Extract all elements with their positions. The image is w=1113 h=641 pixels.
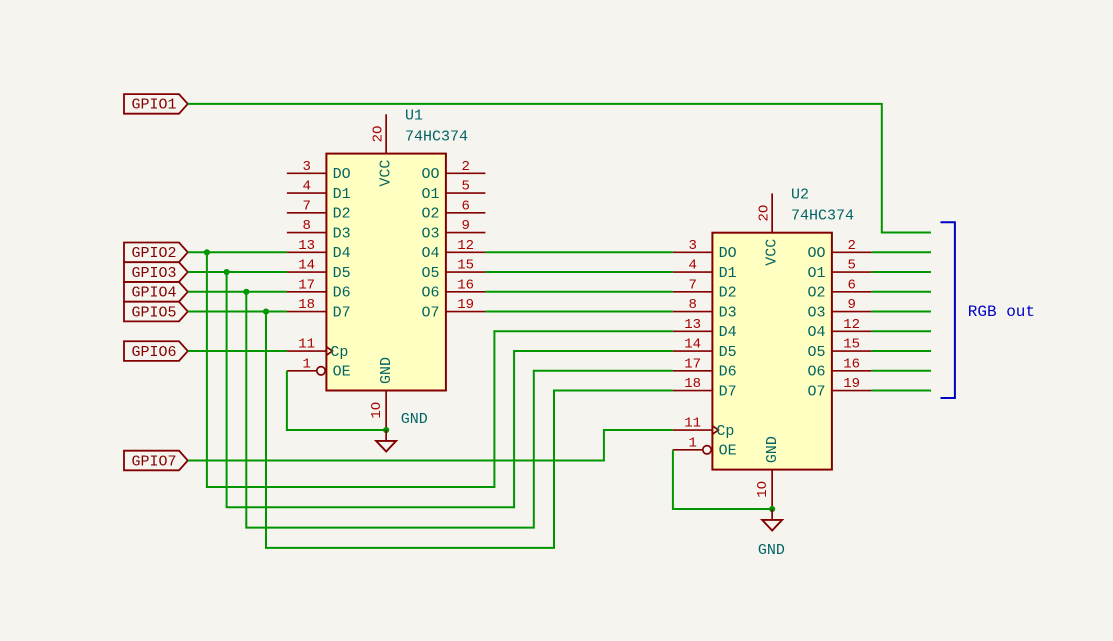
wire U1 O4 to U2 D0 [485, 251, 673, 253]
U1 pin 11 Cp clock [287, 337, 349, 361]
svg-text:GPIO1: GPIO1 [132, 97, 177, 114]
svg-text:2: 2 [461, 159, 469, 175]
svg-text:OE: OE [333, 364, 351, 381]
note bracket RGB out [941, 222, 955, 398]
svg-text:3: 3 [302, 159, 310, 175]
svg-text:O1: O1 [421, 186, 439, 203]
U2 pin 3 D0 [673, 238, 737, 262]
svg-text:7: 7 [302, 198, 310, 214]
wire GPIO5 to U1 D7 [188, 311, 287, 313]
ground symbol GND2 [762, 509, 782, 530]
svg-text:D2: D2 [719, 285, 737, 302]
global label GPIO2 [124, 243, 188, 263]
U2 pin 14 D5 [673, 337, 737, 361]
U1 pin 20 VCC [371, 114, 395, 186]
wire U2 O5 to RGB-out bus [871, 350, 931, 352]
svg-text:13: 13 [298, 238, 315, 254]
svg-text:GPIO4: GPIO4 [132, 285, 177, 302]
U2 pin 2 O0 [807, 238, 871, 262]
svg-text:RGB out: RGB out [968, 303, 1035, 321]
svg-text:DO: DO [333, 166, 351, 183]
svg-text:O7: O7 [421, 304, 439, 321]
svg-text:O1: O1 [807, 265, 825, 282]
U2 pin 4 D1 [673, 258, 737, 282]
U2 pin 13 D4 [673, 317, 737, 341]
wire U2 O0 to RGB-out bus [871, 251, 931, 253]
svg-text:1O: 1O [755, 481, 771, 498]
svg-text:11: 11 [298, 337, 315, 353]
svg-text:O2: O2 [421, 206, 439, 223]
wire GPIO3 to U1 D5 [188, 271, 287, 273]
svg-text:2: 2 [847, 238, 855, 254]
IC U2 74HC374 body [712, 233, 832, 470]
svg-text:16: 16 [843, 356, 860, 372]
svg-text:GPIO3: GPIO3 [132, 265, 177, 282]
U1 pin 7 D2 [287, 198, 351, 222]
svg-text:Cp: Cp [330, 344, 348, 361]
svg-text:OO: OO [421, 166, 439, 183]
svg-text:6: 6 [847, 277, 855, 293]
wire GPIO1 to RGB-out bus [188, 104, 931, 233]
wire GPIO4 to U1 D6 [188, 291, 287, 293]
svg-text:O7: O7 [807, 383, 825, 400]
svg-text:GND: GND [401, 411, 428, 428]
svg-text:9: 9 [461, 218, 469, 234]
global label GPIO7 [124, 451, 188, 471]
U1 pin 1 OE inverted [287, 356, 351, 380]
U2 pin 9 O3 [807, 297, 871, 321]
U1 pin 3 D0 [287, 159, 351, 183]
svg-text:O5: O5 [807, 344, 825, 361]
U1 pin 2 O0 [421, 159, 485, 183]
U1 pin 16 O6 [421, 277, 485, 301]
wire U1 O5 to U2 D1 [485, 271, 673, 273]
svg-text:DO: DO [719, 245, 737, 262]
svg-text:GPIO7: GPIO7 [132, 453, 177, 470]
svg-text:12: 12 [843, 317, 860, 333]
U1 pin 10 GND [369, 357, 395, 430]
svg-text:D4: D4 [719, 324, 737, 341]
U1 pin 18 D7 [287, 297, 351, 321]
svg-text:5: 5 [461, 179, 469, 195]
reference U2 [791, 187, 809, 204]
junction U1 GND net [383, 427, 389, 433]
svg-text:O6: O6 [807, 364, 825, 381]
svg-text:D2: D2 [333, 206, 351, 223]
U2 pin 6 O2 [807, 277, 871, 301]
svg-text:8: 8 [302, 218, 310, 234]
svg-text:8: 8 [688, 297, 696, 313]
wire U2 O6 to RGB-out bus [871, 370, 931, 372]
value 74HC374 U2 [791, 208, 854, 225]
U2 pin 18 D7 [673, 376, 737, 400]
U1 pin 5 O1 [421, 179, 485, 203]
reference U1 [405, 108, 423, 125]
U1 pin 17 D6 [287, 277, 351, 301]
svg-text:4: 4 [688, 258, 696, 274]
U1 pin 8 D3 [287, 218, 351, 242]
wire GPIO3 branch to U2 D5 [227, 272, 673, 507]
junction GPIO4 branch [243, 289, 249, 295]
wire U2 O2 to RGB-out bus [871, 291, 931, 293]
svg-text:U2: U2 [791, 187, 809, 204]
svg-text:5: 5 [847, 258, 855, 274]
svg-text:O4: O4 [807, 324, 825, 341]
svg-text:7: 7 [688, 277, 696, 293]
U1 pin 19 O7 [421, 297, 485, 321]
svg-text:19: 19 [457, 297, 474, 313]
U2 pin 10 GND [755, 436, 781, 509]
svg-text:2O: 2O [371, 126, 387, 143]
svg-text:2O: 2O [757, 205, 773, 222]
svg-text:GPIO6: GPIO6 [132, 344, 177, 361]
global label GPIO3 [124, 262, 188, 282]
wire GPIO4 branch to U2 D6 [246, 292, 673, 528]
wire U2 O1 to RGB-out bus [871, 271, 931, 273]
svg-text:1: 1 [302, 356, 310, 372]
wire U1 O7 to U2 D3 [485, 311, 673, 313]
global label GPIO6 [124, 341, 188, 361]
svg-text:OO: OO [807, 245, 825, 262]
svg-text:4: 4 [302, 179, 310, 195]
U2 pin 5 O1 [807, 258, 871, 282]
svg-text:3: 3 [688, 238, 696, 254]
svg-text:GND: GND [758, 542, 785, 559]
global label GPIO4 [124, 282, 188, 302]
U1 pin 4 D1 [287, 179, 351, 203]
svg-text:O3: O3 [807, 304, 825, 321]
wire U2 O7 to RGB-out bus [871, 390, 931, 392]
ground net name GND1 [401, 411, 428, 428]
svg-text:VCC: VCC [377, 160, 394, 187]
svg-text:VCC: VCC [763, 239, 780, 266]
U2 pin 11 Cp clock [673, 416, 735, 440]
svg-text:11: 11 [684, 416, 701, 432]
junction GPIO3 branch [224, 269, 230, 275]
svg-text:D6: D6 [333, 285, 351, 302]
U1 pin 15 O5 [421, 258, 485, 282]
svg-text:15: 15 [843, 337, 860, 353]
svg-text:OE: OE [719, 443, 737, 460]
svg-text:GPIO5: GPIO5 [132, 304, 177, 321]
svg-text:O6: O6 [421, 285, 439, 302]
svg-text:D1: D1 [719, 265, 737, 282]
svg-text:D5: D5 [333, 265, 351, 282]
wire U1 OE to GND [287, 371, 386, 430]
svg-text:19: 19 [843, 376, 860, 392]
note text RGB out [968, 303, 1035, 321]
ground net name GND2 [758, 542, 785, 559]
svg-text:O4: O4 [421, 245, 439, 262]
wire GPIO2 to U1 D4 [188, 251, 287, 253]
svg-text:O5: O5 [421, 265, 439, 282]
U2 pin 15 O5 [807, 337, 871, 361]
ground symbol GND1 [376, 430, 396, 451]
svg-text:6: 6 [461, 198, 469, 214]
svg-text:17: 17 [298, 277, 315, 293]
U1 pin 14 D5 [287, 258, 351, 282]
junction U2 GND net [769, 506, 775, 512]
svg-text:D6: D6 [719, 364, 737, 381]
wire GPIO6 to U1 Cp [188, 350, 287, 352]
wire GPIO7 to U2 Cp [188, 430, 673, 460]
svg-text:18: 18 [684, 376, 701, 392]
global label GPIO1 [124, 94, 188, 114]
svg-text:1O: 1O [369, 402, 385, 419]
svg-text:18: 18 [298, 297, 315, 313]
U2 pin 16 O6 [807, 356, 871, 380]
svg-text:O3: O3 [421, 225, 439, 242]
svg-text:Cp: Cp [716, 423, 734, 440]
U2 pin 19 O7 [807, 376, 871, 400]
junction GPIO5 branch [263, 308, 269, 314]
value 74HC374 U1 [405, 129, 468, 146]
U2 pin 1 OE inverted [673, 435, 737, 459]
svg-text:D5: D5 [719, 344, 737, 361]
IC U1 74HC374 body [326, 154, 446, 391]
wire GPIO2 branch to U2 D4 [207, 252, 673, 487]
svg-text:1: 1 [688, 435, 696, 451]
U1 pin 13 D4 [287, 238, 351, 262]
svg-text:14: 14 [684, 337, 701, 353]
U2 pin 12 O4 [807, 317, 871, 341]
wire GPIO5 branch to U2 D7 [266, 312, 673, 548]
svg-text:17: 17 [684, 356, 701, 372]
svg-text:D1: D1 [333, 186, 351, 203]
U2 pin 20 VCC [757, 193, 781, 265]
svg-text:U1: U1 [405, 108, 423, 125]
U2 pin 17 D6 [673, 356, 737, 380]
svg-text:13: 13 [684, 317, 701, 333]
svg-text:15: 15 [457, 258, 474, 274]
svg-text:12: 12 [457, 238, 474, 254]
svg-text:D7: D7 [719, 383, 737, 400]
svg-text:9: 9 [847, 297, 855, 313]
U1 pin 12 O4 [421, 238, 485, 262]
junction GPIO2 branch [204, 249, 210, 255]
svg-text:GND: GND [378, 357, 395, 384]
svg-text:D4: D4 [333, 245, 351, 262]
wire U2 O4 to RGB-out bus [871, 330, 931, 332]
U2 pin 8 D3 [673, 297, 737, 321]
svg-text:GND: GND [764, 436, 781, 463]
svg-text:O2: O2 [807, 285, 825, 302]
wire U2 O3 to RGB-out bus [871, 311, 931, 313]
svg-text:D7: D7 [333, 304, 351, 321]
svg-text:14: 14 [298, 258, 315, 274]
svg-text:74HC374: 74HC374 [405, 129, 468, 146]
svg-text:D3: D3 [333, 225, 351, 242]
U2 pin 7 D2 [673, 277, 737, 301]
svg-text:16: 16 [457, 277, 474, 293]
U1 pin 9 O3 [421, 218, 485, 242]
svg-text:74HC374: 74HC374 [791, 208, 854, 225]
svg-text:D3: D3 [719, 304, 737, 321]
svg-text:GPIO2: GPIO2 [132, 245, 177, 262]
U1 pin 6 O2 [421, 198, 485, 222]
wire U1 O6 to U2 D2 [485, 291, 673, 293]
global label GPIO5 [124, 302, 188, 322]
wire U2 OE to GND [673, 450, 772, 509]
